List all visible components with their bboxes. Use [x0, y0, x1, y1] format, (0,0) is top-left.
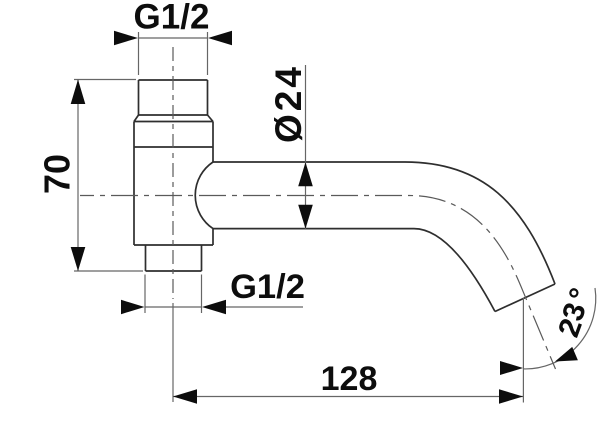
diameter 24 bottom arrow [298, 205, 313, 229]
spout vertical body: threaded top section [134, 80, 555, 312]
128 left arrow [173, 389, 197, 403]
top G1/2 left arrow [114, 31, 138, 45]
bottom G1/2 right arrow [202, 300, 226, 314]
23 degree arrow on vertical extension line [500, 361, 523, 375]
23 degree dimension arc [523, 288, 596, 369]
23 degree label (rotated) [552, 314, 589, 341]
tube inner (bottom) line with bend [213, 229, 495, 312]
svg-text:G1/2: G1/2 [134, 0, 210, 37]
collar and main body [134, 122, 213, 246]
128 left extension line (solid, along centerline) [172, 303, 174, 402]
svg-text:Ø24: Ø24 [268, 64, 309, 143]
23 degree arrow on centerline extension [555, 347, 578, 362]
diameter 24 top arrow [298, 162, 313, 186]
bottom G1/2 dimension line [145, 306, 303, 308]
tube outer (top) line with bend [213, 162, 555, 284]
chamfer to collar [134, 115, 213, 122]
70 dimension: top extension line [74, 79, 136, 81]
svg-text:70: 70 [37, 154, 78, 194]
bell fillet where tube joins body [195, 162, 213, 229]
top G1/2 dimension: extension lines [139, 32, 208, 75]
128 right arrow [499, 389, 523, 403]
70 bottom arrow [71, 247, 86, 271]
bottom nut [146, 245, 202, 271]
svg-text:128: 128 [321, 360, 378, 398]
svg-text:G1/2: G1/2 [230, 268, 305, 306]
70 dimension: bottom extension line [74, 270, 143, 272]
128 dimension: right extension line from spout tip [522, 298, 524, 403]
70 top arrow [71, 80, 86, 105]
128 dimension line [173, 396, 523, 398]
vertical dashed centerline of body [172, 47, 174, 299]
horizontal dash-dot centerline of tube [80, 196, 556, 370]
top G1/2 dimension line [139, 37, 208, 39]
diameter 24 label (rotated) [268, 64, 309, 143]
top G1/2 right arrow [208, 31, 232, 45]
70 label (rotated) [37, 154, 78, 194]
bottom G1/2 dimension: extension lines [145, 275, 202, 314]
spout end cut line [495, 284, 555, 312]
70 dimension line [77, 80, 79, 271]
bottom G1/2 left arrow [121, 300, 145, 314]
diameter 24 leader line [305, 65, 307, 229]
